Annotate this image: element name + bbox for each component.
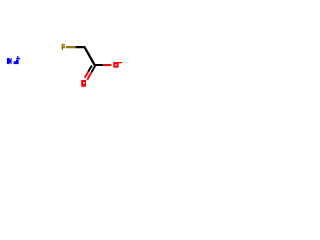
bond F-CH2 (carbon half) + bond CH2-C diagonal xyxy=(76,47,95,65)
carbonyl oxygen label O xyxy=(81,80,86,87)
double bond C=O line 2, oxygen half xyxy=(85,72,89,78)
superscript plus of Na+ xyxy=(17,56,18,60)
glyph a of Na+ xyxy=(16,60,19,64)
double bond C=O line 1, carbon half xyxy=(91,65,95,72)
double bond C=O line 2, carbon half xyxy=(88,66,92,72)
glyph N of Na+ xyxy=(7,58,12,64)
background xyxy=(0,0,130,130)
bond F-CH2 (F colored half) xyxy=(66,46,76,48)
bond C-O(minus), carbon half xyxy=(94,64,103,66)
carboxylate oxygen label O with minus charge xyxy=(113,62,122,68)
bond C-O(minus), oxygen half xyxy=(103,64,111,66)
sodium cation label Na+ xyxy=(7,56,20,64)
double bond C=O line 1, oxygen half xyxy=(87,72,91,79)
fluorine atom label F xyxy=(62,44,65,50)
